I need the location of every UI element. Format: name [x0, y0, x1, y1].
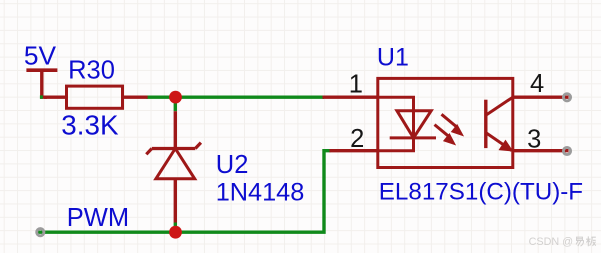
label R30	[68, 57, 115, 85]
svg-text:2: 2	[350, 125, 364, 153]
label PWM	[67, 204, 129, 232]
svg-text:U2: U2	[216, 151, 249, 179]
pin 3 lead	[513, 149, 569, 152]
svg-text:3: 3	[527, 125, 541, 153]
pin 4 lead	[513, 95, 569, 98]
endpoint pin 4	[563, 94, 570, 101]
light emission arrow 1	[442, 114, 463, 135]
svg-text:PWM: PWM	[67, 204, 129, 232]
endpoint pin 3	[563, 147, 570, 154]
light emission arrow 2	[435, 125, 455, 145]
pin number 4	[530, 70, 544, 98]
endpoint PWM left	[37, 229, 44, 236]
svg-text:EL817S1(C)(TU)-F: EL817S1(C)(TU)-F	[379, 179, 583, 206]
svg-text:R30: R30	[68, 57, 115, 85]
svg-text:1N4148: 1N4148	[216, 178, 305, 206]
label 1N4148	[216, 178, 305, 206]
svg-text:5V: 5V	[24, 41, 57, 71]
wire: stub diode anode pin to bottom junction	[174, 223, 177, 233]
label 3.3K	[61, 110, 119, 141]
svg-text:4: 4	[530, 70, 544, 98]
diode U2 (zener-style symbol)	[146, 111, 201, 222]
transistor Q (phototransistor inside U1)	[486, 97, 513, 151]
watermark	[529, 236, 596, 248]
label U1	[377, 44, 409, 72]
resistor R30	[44, 86, 148, 108]
pin number 1	[349, 71, 363, 99]
op-amp U1 optocoupler box	[378, 78, 513, 167]
LED inside U1	[378, 97, 436, 151]
junction bottom (node PWM)	[169, 226, 182, 239]
pin number 3	[527, 125, 541, 153]
label EL817S1(C)(TU)-F	[379, 179, 583, 206]
wire: PWM net (bottom horizontal, up to U1 pin 2)	[38, 151, 331, 233]
wire: stub junction to diode cathode pin	[174, 97, 177, 111]
pin 1 lead	[323, 95, 378, 98]
label U2	[216, 151, 249, 179]
power port 5V	[26, 70, 57, 99]
svg-text:CSDN @: CSDN @	[529, 236, 574, 248]
pin number 2	[350, 125, 364, 153]
wire: 5V rail top horizontal (green net row A from resistor to U1 pin 1)	[147, 95, 325, 98]
junction top (node A)	[169, 91, 182, 104]
svg-text:3.3K: 3.3K	[61, 110, 119, 141]
pin 2 lead	[330, 149, 378, 152]
svg-text:1: 1	[349, 71, 363, 99]
svg-text:U1: U1	[377, 44, 409, 72]
label 5V	[24, 41, 57, 71]
